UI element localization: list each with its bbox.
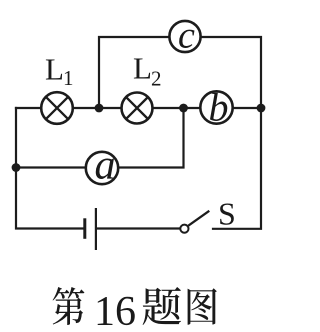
junction node: lamp row / mid riser [179,104,188,113]
wire left edge and bottom run to battery [16,108,84,229]
wire meter-a row and mid riser to node B [16,108,184,168]
caption char 题 [143,287,181,325]
junction node: lamp row / top loop riser [95,104,104,113]
svg-text:2: 2 [151,67,162,91]
caption char 第 [53,287,85,325]
svg-text:S: S [218,196,236,232]
label L2 [133,51,162,91]
meter a (U-a) [86,143,118,189]
wire battery to switch pivot [98,227,181,229]
svg-text:c: c [178,15,195,57]
battery cell: long positive plate [95,208,97,250]
meter b (U-b) [200,85,232,130]
wire top loop: left riser, top run, right edge down, switch right contact [99,37,261,229]
svg-text:1: 1 [63,66,74,90]
svg-text:L: L [45,52,64,87]
junction node: lamp row / right edge [257,104,266,113]
svg-text:16: 16 [94,289,136,332]
caption char 图 [188,288,217,324]
switch S lever [188,211,209,226]
wire lamp/meter-b row [16,107,261,109]
junction node: left edge / meter-a row [12,163,21,172]
meter c (U-c) [169,15,200,57]
label L1 [45,52,74,91]
svg-text:a: a [95,143,116,189]
switch S pivot [180,225,188,233]
lamp L2 [122,93,153,124]
svg-text:L: L [133,51,152,86]
lamp L1 [41,92,73,124]
svg-text:b: b [209,85,229,130]
battery cell: short negative plate [83,218,86,239]
